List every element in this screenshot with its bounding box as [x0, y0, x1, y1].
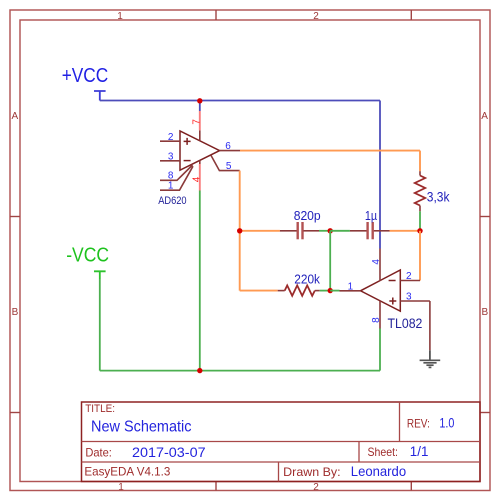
wire orange down to R 3,3k	[419, 151, 421, 172]
title block divider DrawnBy cell	[278, 462, 280, 482]
op-amp U2 TL082 triangle	[361, 270, 401, 311]
TL082 pin 1 lead	[340, 290, 361, 292]
svg-text:EasyEDA V4.1.3: EasyEDA V4.1.3	[84, 465, 170, 479]
svg-text:B: B	[481, 307, 488, 318]
AD620 pin 6	[220, 150, 240, 152]
svg-text:Sheet:: Sheet:	[368, 445, 399, 459]
AD620 pin 2	[160, 140, 180, 142]
wire -VCC horizontal	[100, 370, 380, 372]
wire orange 220k row	[240, 290, 278, 292]
AD620 pin 4 lead	[199, 160, 201, 164]
svg-text:2017-03-07: 2017-03-07	[132, 445, 206, 460]
wire green junction to TL082 pin1	[330, 290, 339, 292]
wire +VCC horizontal	[100, 100, 380, 102]
junction feedback left	[237, 228, 242, 233]
resistor R2 220k horizontal	[278, 285, 320, 295]
svg-text:4: 4	[191, 176, 202, 182]
AD620 pin 8	[160, 165, 193, 180]
TL082 pin 4 lead	[379, 249, 381, 282]
frame tick left B|C	[10, 412, 20, 414]
svg-text:TL082: TL082	[388, 315, 423, 331]
frame tick right A|B	[480, 216, 490, 218]
TL082 pin 2 lead	[400, 280, 420, 282]
title block outline	[82, 402, 481, 482]
svg-text:220k: 220k	[294, 271, 320, 286]
svg-text:7: 7	[191, 119, 202, 125]
netport -VCC	[94, 271, 106, 279]
AD620 pin 3	[160, 160, 180, 162]
wire TL082 pin3 to ground	[429, 301, 431, 350]
wire +VCC vertical to TL082 pin4	[379, 101, 381, 249]
capacitor C2 1u	[350, 222, 390, 239]
AD620 pin 7 lead	[199, 130, 201, 140]
svg-text:4: 4	[371, 259, 382, 265]
wire orange AD620 pin5 down	[239, 171, 241, 291]
svg-text:1: 1	[118, 482, 124, 493]
frame tick bottom 2|3	[410, 482, 412, 491]
title block divider REV cell	[399, 402, 401, 442]
svg-text:1µ: 1µ	[365, 208, 378, 223]
junction mid cap row	[328, 228, 333, 233]
svg-text:2: 2	[313, 482, 319, 493]
wire orange 1u to junction right	[390, 230, 421, 232]
AD620 pin 5	[211, 155, 240, 170]
frame tick bottom 1|2	[215, 482, 217, 491]
svg-text:1.0: 1.0	[439, 416, 454, 431]
svg-text:2: 2	[168, 132, 174, 143]
wire orange AD620 out	[240, 150, 420, 152]
svg-text:2: 2	[313, 11, 319, 22]
capacitor C1 820p	[280, 222, 319, 239]
AD620 minus sign	[184, 160, 191, 162]
wire green up to AD620 pin4	[199, 191, 201, 371]
junction on -VCC rail	[197, 368, 202, 373]
AD620 pin 4 highlight	[199, 164, 201, 191]
ground symbol	[420, 350, 441, 367]
svg-text:2: 2	[406, 271, 412, 282]
svg-text:A: A	[11, 111, 18, 122]
wire green 820p to junction	[319, 230, 330, 232]
svg-text:1: 1	[117, 11, 123, 22]
svg-text:B: B	[12, 307, 19, 318]
svg-text:3: 3	[406, 291, 412, 302]
wire orange junction down to TL082 pin2	[419, 231, 421, 281]
netport +VCC	[94, 91, 106, 101]
wire green vertical between junctions	[329, 231, 331, 291]
AD620 pin 1	[160, 166, 193, 190]
wire green below 3,3k	[419, 211, 421, 231]
svg-text:820p: 820p	[294, 208, 321, 223]
title block divider row2/row3	[82, 461, 481, 463]
svg-text:1: 1	[168, 181, 174, 192]
wire orange cap row left	[240, 230, 280, 232]
TL082 pin 3 lead	[400, 300, 430, 302]
frame tick left A|B	[10, 216, 20, 218]
AD620 plus sign	[184, 138, 191, 145]
wire green junction to 1u	[330, 230, 350, 232]
svg-text:AD620: AD620	[158, 195, 186, 207]
frame tick right B|C	[480, 412, 490, 414]
svg-text:+VCC: +VCC	[62, 65, 108, 87]
title block divider Sheet cell	[358, 442, 360, 463]
frame tick top 2|3	[410, 10, 412, 20]
junction 220k row	[328, 288, 333, 293]
svg-text:6: 6	[225, 141, 231, 152]
svg-text:Drawn By:: Drawn By:	[283, 465, 340, 479]
svg-text:-VCC: -VCC	[66, 245, 109, 267]
wire stub to AD620 pin7	[199, 101, 201, 112]
svg-text:1/1: 1/1	[410, 444, 429, 459]
title block divider row1/row2	[82, 441, 481, 443]
frame tick top 1|2	[215, 10, 217, 20]
TL082 pin 8 lead	[379, 301, 381, 329]
svg-text:TITLE:: TITLE:	[85, 403, 115, 415]
svg-text:New Schematic: New Schematic	[91, 418, 192, 435]
wire green 220k to junction	[320, 290, 331, 292]
wire green up to TL082 pin8	[379, 329, 381, 371]
svg-text:3,3k: 3,3k	[427, 190, 450, 205]
svg-text:A: A	[481, 111, 488, 122]
svg-text:5: 5	[226, 161, 232, 172]
svg-text:3: 3	[168, 151, 174, 162]
svg-text:Date:: Date:	[85, 446, 112, 460]
TL082 minus sign	[389, 280, 396, 282]
resistor R1 3,3k vertical	[415, 171, 425, 211]
svg-text:8: 8	[371, 317, 382, 323]
AD620 pin 7 highlight	[199, 111, 201, 130]
svg-text:REV:: REV:	[407, 417, 430, 431]
svg-text:1: 1	[348, 281, 354, 292]
op-amp U1 AD620 triangle	[180, 131, 220, 170]
TL082 plus sign	[389, 298, 396, 305]
wire -VCC vertical	[99, 279, 101, 371]
junction right cap row	[417, 228, 422, 233]
svg-text:Leonardo: Leonardo	[351, 463, 406, 479]
junction on +VCC rail	[197, 98, 202, 103]
